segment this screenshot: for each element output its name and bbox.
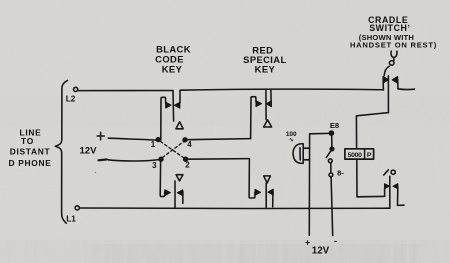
svg-text:+: + xyxy=(305,238,310,248)
red key lower left contact from node 2 wire xyxy=(249,159,255,198)
svg-text:HANDSET ON REST): HANDSET ON REST) xyxy=(350,40,437,49)
wire node 4 to red key xyxy=(187,139,251,140)
svg-text:3: 3 xyxy=(152,161,157,170)
svg-text:SWITCHʼ: SWITCHʼ xyxy=(369,23,410,33)
svg-text:2: 2 xyxy=(185,161,190,170)
cradle switch lower left contact (from 5000P wire) xyxy=(384,189,386,197)
receiver body xyxy=(293,144,303,164)
terminal L1 xyxy=(75,206,79,210)
red key lower triangle marker xyxy=(264,176,271,183)
wire node 2 to red key lower xyxy=(187,158,249,161)
cradle switch lower right contact xyxy=(393,184,398,189)
svg-text:1: 1 xyxy=(151,140,156,149)
black key upper right contact xyxy=(179,90,181,103)
label CRADLE SWITCH (SHOWN WITH HANDSET ON REST) xyxy=(350,15,437,49)
wire L2 to black key xyxy=(78,90,173,92)
svg-text:D PHONE: D PHONE xyxy=(8,158,51,168)
wire 8- contact down to battery minus xyxy=(331,177,333,236)
svg-text:E8: E8 xyxy=(330,121,339,130)
receiver 100 ohm label xyxy=(286,131,297,144)
svg-text:∿: ∿ xyxy=(289,138,294,144)
wire box to lower cradle contact xyxy=(357,159,385,197)
svg-text:12V: 12V xyxy=(79,146,97,157)
red key upper left contact xyxy=(251,97,256,139)
svg-text:KEY: KEY xyxy=(255,64,276,75)
black key upper triangle marker xyxy=(176,122,183,129)
crossover dashed 3-4 xyxy=(163,141,185,157)
svg-text:L2: L2 xyxy=(66,95,76,104)
red key upper triangle marker xyxy=(264,120,272,127)
black key upper: actuator from L2 xyxy=(172,91,175,122)
top wire to cradle switch xyxy=(180,89,383,90)
svg-text:DISTANT: DISTANT xyxy=(10,147,51,157)
cradle switch upper right contact xyxy=(392,77,398,84)
resistor box 5000 P xyxy=(356,113,388,149)
wire - to node 3 xyxy=(108,160,159,161)
cradle switch lower: plunger stroke xyxy=(384,170,389,175)
svg-text:KEY: KEY xyxy=(162,64,183,75)
node 2 xyxy=(184,157,188,161)
black key lower left contact from node 3 xyxy=(160,161,165,197)
cradle switch upper: pivot circle xyxy=(389,61,394,66)
svg-text:5000: 5000 xyxy=(348,152,362,159)
wire E8 node to receiver branch xyxy=(309,133,329,235)
svg-text:P: P xyxy=(367,152,372,159)
cradle switch lower: pivot circle xyxy=(391,170,395,174)
svg-text:12V: 12V xyxy=(312,245,330,256)
node 1 xyxy=(156,138,160,142)
black key lower right contact xyxy=(177,190,182,196)
wire L1 xyxy=(79,207,389,210)
black key lower triangle marker xyxy=(176,175,183,181)
red key lower actuator to L1 xyxy=(265,183,267,208)
node 4 xyxy=(183,138,187,142)
speck xyxy=(95,172,97,174)
cradle switch upper: actuator line down to box link xyxy=(387,76,389,113)
node 3 xyxy=(159,157,163,161)
terminal L2 xyxy=(74,87,78,91)
svg-text:-: - xyxy=(334,236,337,246)
svg-text:8-: 8- xyxy=(337,169,344,178)
cradle switch lower: actuator line to L1 xyxy=(389,176,391,208)
red key lower right contact xyxy=(268,189,273,195)
receiver stubs xyxy=(303,148,309,160)
crossover dashed 1-2 xyxy=(161,142,185,159)
brace (line bracket) xyxy=(55,80,67,223)
battery 12V bottom xyxy=(305,236,337,256)
red key upper actuator xyxy=(265,89,267,119)
svg-text:L1: L1 xyxy=(66,215,76,224)
svg-text:TO: TO xyxy=(21,136,34,146)
svg-text:4: 4 xyxy=(187,140,192,149)
label LINE TO DISTANT D PHONE xyxy=(8,128,51,169)
label RED SPECIAL KEY xyxy=(243,45,286,75)
wire + to node 1 xyxy=(108,138,156,140)
cradle switch upper: plunger arc xyxy=(384,66,389,75)
red key upper right contact xyxy=(270,89,272,101)
black key upper left contact xyxy=(161,97,166,140)
cradle switch upper left contact (from top wire) xyxy=(382,83,384,90)
black key lower actuator to L1 xyxy=(174,181,176,209)
cradle switch upper: handset fork xyxy=(391,51,397,57)
label BLACK CODE KEY xyxy=(155,44,191,75)
stub wire right of upper cradle switch xyxy=(398,88,415,91)
